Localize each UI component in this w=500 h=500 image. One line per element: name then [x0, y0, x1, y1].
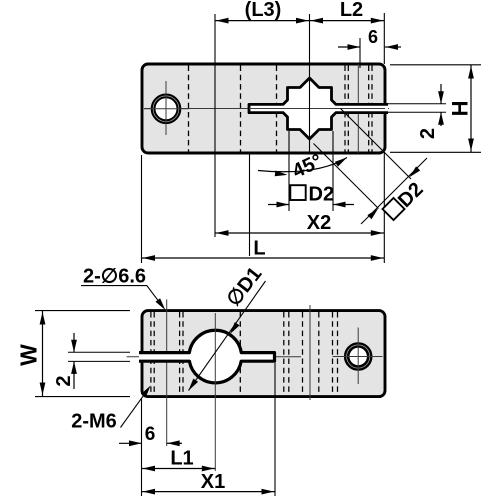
45-degree dimension arc [258, 158, 347, 172]
centerline left hole (bottom view) [166, 299, 168, 446]
extension line H top [390, 64, 481, 66]
extension line slot top left [68, 351, 130, 353]
svg-text:D2: D2 [309, 184, 335, 206]
svg-text:H: H [447, 100, 472, 116]
dimension square-D2 horizontal [268, 204, 289, 206]
centerline big bore vertical (bottom view) [214, 313, 216, 471]
extension line square right x=333 [332, 131, 334, 211]
svg-text:L: L [253, 238, 265, 260]
dimension line L2 [310, 20, 385, 22]
extension line slot bottom right [386, 111, 446, 113]
svg-text:2: 2 [53, 375, 75, 386]
svg-text:2-∅6.6: 2-∅6.6 [83, 266, 146, 288]
left counterbore hole outer circle (top view) [153, 96, 179, 122]
45-degree line from square corner S [314, 144, 379, 209]
centerline star axis (bottom view) [309, 305, 311, 400]
horizontal centerline (bottom view) [127, 356, 301, 358]
bore and slot cutout outline (bottom view) [139, 330, 275, 383]
top view block body [142, 64, 385, 153]
hidden line big-bore right edge (top view) [240, 66, 242, 152]
extension line W top [35, 310, 130, 312]
bore and slot cutout fill (bottom view) [139, 330, 275, 383]
dimension line H [470, 65, 472, 152]
dimension 2 (top view slot) [440, 84, 442, 104]
extension line H bottom [390, 151, 481, 153]
extension line L2 right / block right edge up [383, 13, 385, 64]
svg-text:6: 6 [368, 27, 378, 47]
centerline right hole (top view) [357, 64, 359, 153]
svg-text:L2: L2 [340, 0, 363, 21]
dimension line (L3) [215, 20, 310, 22]
extension line big-bore center x=215 [214, 14, 216, 237]
label rotated square symbol [383, 198, 405, 220]
hidden lines left M6 hole pair 1 (bottom view) [150, 312, 152, 395]
svg-text:6: 6 [145, 424, 156, 445]
extension line for 6-dim at x=360 [359, 38, 361, 68]
hidden line big-bore left edge (top view) [188, 66, 190, 152]
dimension X1 [142, 491, 276, 493]
extension line slot bottom left [68, 360, 130, 362]
extension line X1 right x=275 [274, 363, 276, 496]
svg-text:2: 2 [417, 128, 439, 139]
dimension line for rotated square D2 [361, 158, 427, 224]
label square symbol horizontal [290, 185, 305, 200]
slot centerline across cutout (top view) [249, 108, 385, 110]
left hole horizontal crosshair (top view) [144, 108, 189, 110]
leader line phiD1 through bore [189, 281, 266, 391]
left hole vertical crosshair (top view) [165, 81, 167, 135]
horizontal centerline (top view) [144, 108, 389, 110]
extension line slot end below block [249, 153, 251, 256]
hidden lines left M6 hole pair 2 (bottom view) [179, 312, 181, 395]
svg-text:X1: X1 [201, 471, 225, 493]
hidden line big-bore right (bottom view) [239, 312, 241, 395]
hidden line slot end (top view) [276, 66, 278, 152]
extension line W bottom [35, 396, 130, 398]
extension line slot top right [386, 103, 446, 105]
extension line star center x=309.5 [309, 14, 311, 153]
svg-text:X2: X2 [307, 212, 331, 234]
extension line block left edge down (bottom view) [141, 399, 143, 497]
45-degree line from slot corner E through block corner [341, 109, 412, 180]
svg-text:(L3): (L3) [245, 0, 282, 21]
right hole crosshair vertical (bottom view) [357, 328, 359, 385]
leader line 2-M6 [121, 389, 149, 427]
dimension 6 (top) [338, 46, 360, 48]
extension line block right edge down to L dim [383, 152, 385, 263]
bottom view block body [142, 311, 385, 397]
dimension X2 [215, 232, 384, 234]
slot and double-square broach cutout fill (top view) [249, 78, 388, 139]
hidden lines star features (bottom view) [283, 312, 285, 395]
slot and double-square broach cutout outline (top view) [249, 78, 388, 139]
extension line square left x=289 [288, 131, 290, 211]
dimension 6 (bottom) [119, 442, 142, 444]
right counterbore hole ring highlight (bottom view) [347, 345, 370, 368]
extension line block left edge down to L dim [141, 155, 143, 263]
svg-text:2-M6: 2-M6 [71, 410, 117, 432]
right hole crosshair horizontal (bottom view) [333, 356, 383, 358]
dimension W [42, 311, 44, 396]
dimension 2 (bottom view slot) [73, 333, 75, 352]
right counterbore hole outer circle (bottom view) [347, 345, 370, 368]
svg-text:W: W [15, 344, 41, 366]
svg-text:L1: L1 [170, 448, 193, 470]
dimension L1 [142, 468, 216, 470]
hidden lines right counterbore hole (top view) [344, 66, 346, 152]
leader line 2-phi6.6 [81, 286, 164, 308]
left counterbore hole ring highlight (top view) [153, 96, 179, 122]
dimension L [142, 257, 385, 259]
